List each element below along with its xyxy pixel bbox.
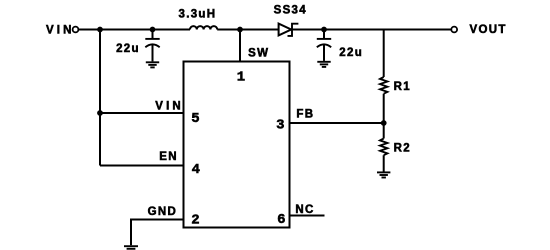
svg-text:GND: GND [148,206,177,218]
svg-text:6: 6 [277,212,285,228]
wire GND pin to ground [131,220,184,246]
svg-text:R1: R1 [394,81,411,93]
svg-text:2: 2 [191,212,199,228]
wire input rail down the left [99,30,101,166]
node VIN terminal [73,27,79,33]
wire R1 to FB node [383,94,385,123]
svg-text:VIN: VIN [46,25,74,37]
capacitor C1 22u [145,30,159,62]
wire to VIN pin [100,112,184,114]
wire VOUT rail to R1 [383,30,385,78]
svg-text:VOUT: VOUT [470,24,507,36]
junction dot VIN pin branch [97,110,103,116]
svg-text:3: 3 [276,118,284,134]
ground (C2) [317,62,330,67]
svg-text:5: 5 [191,111,199,127]
wire FB node to R2 [383,123,385,139]
svg-text:EN: EN [159,151,178,163]
svg-text:FB: FB [296,109,314,121]
svg-text:22u: 22u [116,43,140,55]
svg-text:R2: R2 [394,143,411,155]
junction dot SW node [237,27,243,33]
wire SW node to pin 1 [239,30,241,62]
wire diode to VOUT terminal [293,29,452,31]
svg-text:22u: 22u [339,47,363,59]
node VOUT terminal [451,27,457,33]
svg-text:3.3uH: 3.3uH [179,9,217,21]
wire to EN pin [100,165,184,167]
ground (GND pin) [124,246,138,249]
junction dot at left rail branch [97,27,103,33]
junction dot at C1 top [150,27,156,33]
svg-text:SS34: SS34 [274,5,307,17]
wire inductor to diode [217,29,279,31]
capacitor C2 22u [317,30,331,61]
svg-text:SW: SW [248,48,269,60]
junction dot FB node [381,120,387,126]
ground (R2) [377,172,390,177]
wire NC stub [290,215,325,217]
wire VIN terminal to inductor [79,29,190,31]
junction dot at C2 top [321,27,327,33]
svg-text:4: 4 [192,162,200,178]
svg-text:1: 1 [237,69,245,85]
inductor L1 3.3uH [190,26,217,29]
ground (C1) [146,62,159,67]
wire R2 to ground [383,155,385,171]
resistor R2 [380,139,387,156]
resistor R1 [380,77,387,94]
diode D1 SS34 (schottky) [279,24,299,36]
svg-text:VIN: VIN [155,100,183,112]
wire FB pin to FB node [290,122,384,124]
svg-text:NC: NC [295,204,314,216]
IC U1 body [184,62,290,228]
